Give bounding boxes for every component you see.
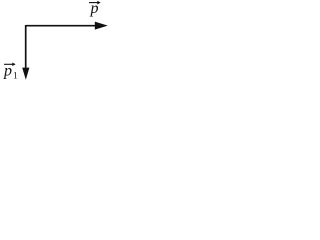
vector p: horizontal arrow shaft: [26, 25, 97, 27]
overbar arrowhead of label p: [97, 1, 100, 5]
vector p1: vertical arrow shaft: [25, 25, 27, 69]
vector p1: arrowhead (points down): [22, 68, 29, 80]
svg-text:p: p: [3, 63, 12, 80]
overbar arrow of label p: [89, 2, 98, 4]
vector p: arrowhead (points right): [95, 22, 108, 30]
overbar arrowhead of label p1: [12, 62, 15, 66]
overbar arrow of label p1: [4, 63, 13, 65]
svg-text:1: 1: [13, 72, 18, 82]
